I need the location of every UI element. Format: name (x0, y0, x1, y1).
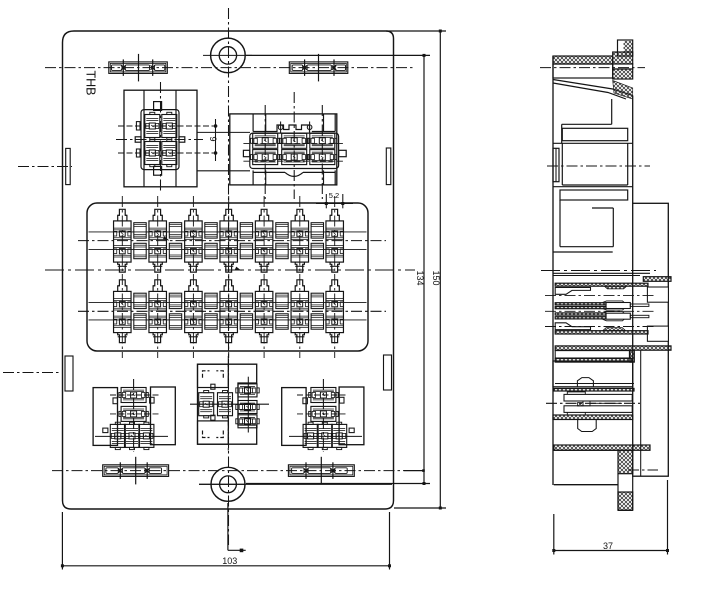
side view top tab (618, 40, 633, 56)
side view centerline top slot (540, 67, 645, 69)
fuse cavity pair G6 lower (311, 293, 323, 308)
bottom-center block small tabs (211, 384, 215, 389)
fuse column C3 centerline (192, 196, 194, 358)
side view lower seal band bump (603, 328, 626, 331)
side view lower seal band (555, 331, 648, 334)
bottom-right block connectors (311, 388, 336, 403)
side view upper cavity step (611, 99, 613, 124)
side view upper seal band (555, 283, 648, 286)
fuse column C1 upper (118, 209, 127, 221)
side view protrusion slot 1 (647, 287, 668, 302)
dimension 150 (386, 30, 446, 32)
side view left edge (552, 56, 554, 485)
svg-text:37: 37 (603, 541, 613, 551)
lower bank centerline (78, 310, 386, 312)
bottom-right block side plates (282, 388, 306, 446)
side view divider 3 (553, 251, 613, 253)
fuse column C2 centerline (157, 196, 159, 358)
side view terminal mid detail (564, 394, 632, 401)
svg-text:134: 134 (415, 270, 425, 285)
side view right edge upper (632, 96, 634, 204)
fuse column C2 lower (153, 280, 162, 292)
bottom-center block left connectors (199, 393, 214, 416)
bottom-left block centerlines (133, 379, 135, 452)
side view lower right hatch strip (618, 450, 633, 473)
svg-text:THB: THB (84, 71, 98, 96)
side view row centerlines (545, 295, 655, 297)
upper-right block centerlines (264, 105, 266, 199)
side view mid white section (553, 361, 633, 387)
fuse cavity pair G6 upper (311, 223, 323, 238)
bottom-center block right connectors (238, 384, 257, 397)
bottom-right block centerlines (322, 379, 324, 452)
side view inner bar 2 (560, 190, 628, 200)
fuse column C3 lower (189, 280, 198, 292)
fuse column C5 upper (260, 209, 269, 221)
side view lower hatch band 2b (555, 358, 632, 362)
upper-left connector block outline (124, 90, 197, 187)
front view body outline (63, 31, 394, 509)
side view wide hatch band 5 (554, 445, 633, 450)
bottom-center block centerlines (190, 403, 269, 405)
left edge notch upper (66, 148, 71, 184)
upper-right connector block outline (230, 114, 337, 185)
right edge notch upper (386, 148, 391, 185)
side view inner bar 1 (562, 128, 627, 140)
svg-text:9: 9 (208, 136, 218, 141)
side view upper white band (553, 64, 613, 78)
side view terminal area top lines (553, 272, 650, 274)
fuse column C3 upper (189, 209, 198, 221)
side view main centerline (541, 270, 656, 272)
bottom left slot (103, 465, 169, 477)
connecting lines between upper blocks (197, 131, 250, 133)
side view terminal seal band right (643, 277, 671, 282)
side view right protrusion (633, 203, 669, 476)
bottom mounting hole (211, 467, 245, 501)
side view lower hatch band 2 (555, 346, 671, 350)
fuse column C6 lower (295, 280, 304, 292)
side view protrusion slot 2 (647, 326, 668, 341)
upper-right block housing (250, 133, 339, 168)
grid row lines (89, 231, 367, 233)
side view divider 1 (553, 142, 633, 144)
fuse cavity pair G1 lower (134, 293, 146, 308)
upper-left block connectors (145, 115, 160, 138)
side view taper lines (553, 80, 633, 96)
dimension 37 (553, 514, 555, 555)
side view terminal blade B with seals (555, 303, 606, 305)
upper-right block connectors (253, 133, 278, 148)
top slot centerline (45, 67, 414, 69)
main horizontal centerline (45, 269, 415, 271)
side view top right block (613, 52, 633, 64)
side view hatch band 4 (553, 415, 633, 420)
side view hatch band 3 (554, 388, 634, 391)
fuse cavity pair G5 lower (276, 293, 288, 308)
left edge notch lower (65, 356, 73, 391)
bottom-center block corner marks (203, 371, 210, 378)
side view bottom outline (554, 484, 618, 486)
fuse column C7 upper (330, 209, 339, 221)
left notch centerline upper (18, 166, 72, 168)
side view terminal blade D (555, 323, 590, 330)
upper-left block centerlines (160, 82, 162, 193)
direction mark on upper bank line (163, 236, 170, 240)
side view bottom divider (554, 449, 633, 451)
fuse cavity pair G3 lower (205, 293, 217, 308)
fuse column C1 centerline (121, 196, 123, 358)
dimension 9 (215, 119, 217, 161)
side view divider 2 (553, 186, 633, 188)
svg-text:150: 150 (431, 270, 441, 285)
side view clip feature 2 (578, 420, 597, 432)
fuse column C7 lower (330, 280, 339, 292)
bottom right slot (288, 465, 354, 477)
side view lower cavity (559, 200, 561, 247)
fuse column C5 centerline (263, 196, 265, 358)
bottom-center block sub-rects (198, 364, 229, 387)
side view protrusion inner step line (640, 351, 642, 477)
side view terminal blade C with seals (555, 313, 606, 315)
bottom-right block tabs (349, 428, 354, 433)
fuse cavity pair G2 lower (169, 293, 181, 308)
side view white strip under band2 (555, 351, 629, 358)
side view slot centerline short (628, 469, 658, 471)
right edge notch lower (384, 355, 392, 390)
side view terminal blade A (555, 288, 590, 295)
side view centerline notch (547, 165, 650, 167)
left notch centerline lower (3, 372, 60, 374)
fuse column C4 upper (224, 209, 233, 221)
fuse cavity pair G1 upper (134, 223, 146, 238)
fuse column C5 lower (260, 280, 269, 292)
fuse column C4 lower (224, 280, 233, 292)
leader arrow from bottom hole (227, 503, 229, 550)
bottom-center block outline (198, 364, 257, 444)
fuse column C2 upper (153, 209, 162, 221)
fuse cavity pair G5 upper (276, 223, 288, 238)
side view lower centerline (546, 402, 640, 404)
fuse cavity pair G2 upper (169, 223, 181, 238)
upper bank centerline (78, 240, 386, 242)
fuse column C4 centerline (228, 196, 230, 358)
bottom-left block side plates (93, 388, 117, 446)
bottom-left block connectors (121, 388, 146, 403)
fuse column C1 lower (118, 280, 127, 292)
top left slot (109, 62, 168, 74)
bottom-left block tabs (103, 428, 108, 433)
upper-left block side tabs (136, 122, 140, 130)
central grid container (87, 203, 368, 351)
body inner step line through bottom hole (199, 483, 392, 485)
upper-right block top castellation (277, 125, 310, 132)
direction mark on main centerline (235, 267, 242, 271)
dimension 103 (61, 512, 63, 570)
main vertical centerline (228, 8, 230, 545)
top mounting hole (211, 38, 246, 73)
fuse cavity pair G4 lower (240, 293, 252, 308)
top right slot (289, 62, 348, 74)
side view clip feature 1 (577, 378, 593, 387)
svg-text:103: 103 (222, 556, 237, 566)
upper-left block housing (141, 110, 179, 170)
dimension 5.2 (325, 194, 327, 208)
svg-text:5.2: 5.2 (329, 191, 339, 200)
side view mid cavity (561, 143, 563, 185)
fuse column C7 centerline (334, 196, 336, 358)
fuse cavity pair G3 upper (205, 223, 217, 238)
side view top seal band (553, 56, 613, 64)
bottom slot centerline (52, 470, 404, 472)
side view left notch slot (553, 148, 559, 181)
fuse column C6 upper (295, 209, 304, 221)
dimension 134 (246, 54, 430, 56)
fuse cavity pair G4 upper (240, 223, 252, 238)
fuse column C6 centerline (299, 196, 301, 358)
